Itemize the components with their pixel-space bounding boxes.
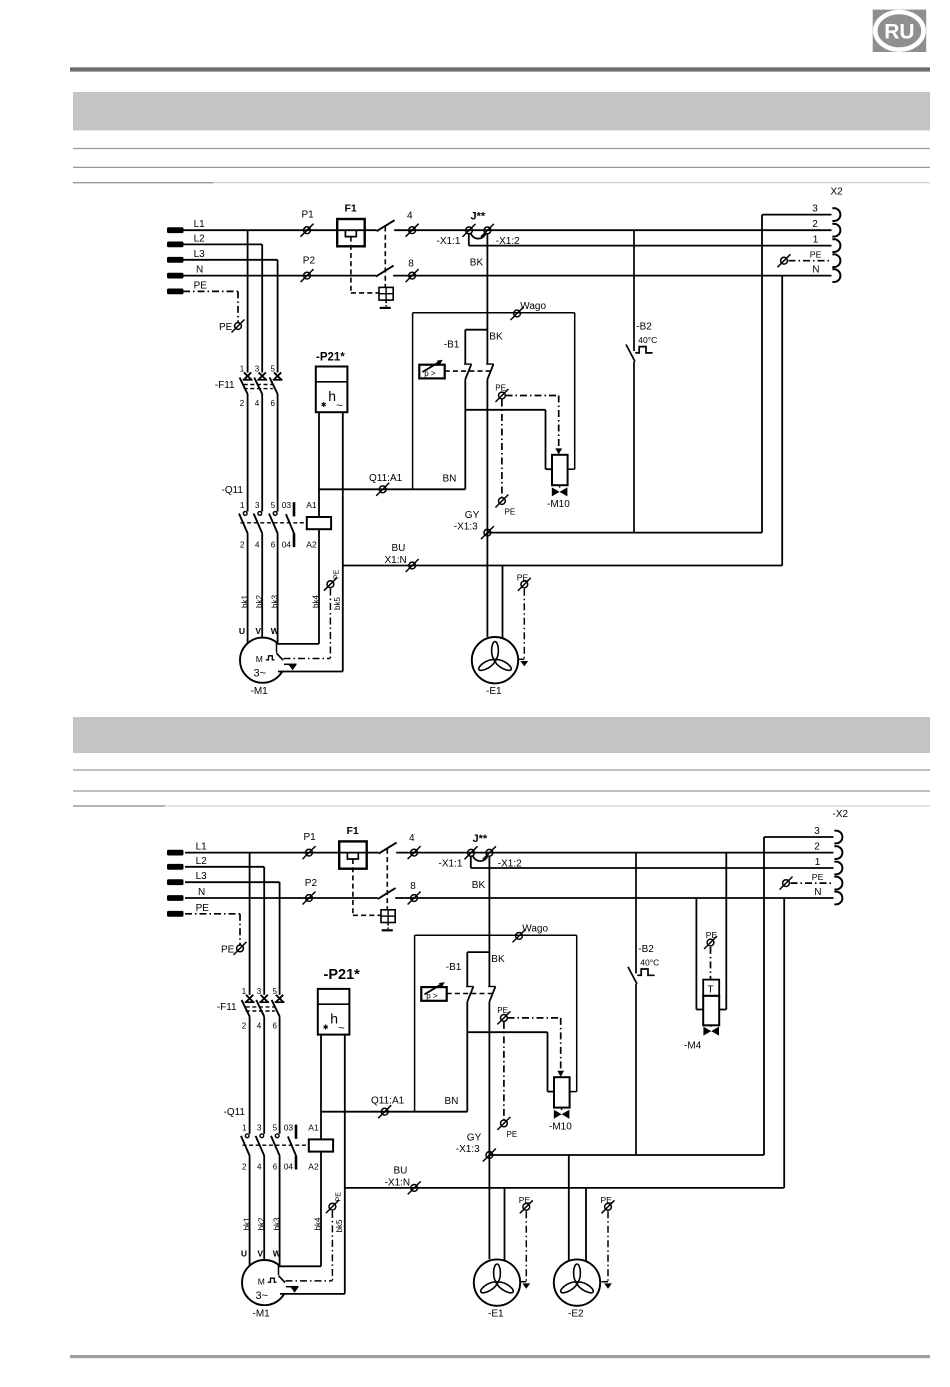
svg-text:L3: L3 [196, 871, 208, 882]
svg-text:-Q11: -Q11 [224, 1107, 246, 1118]
svg-text:-F11: -F11 [215, 380, 235, 391]
svg-text:-M10: -M10 [547, 499, 570, 510]
svg-text:U: U [239, 626, 245, 636]
svg-text:J**: J** [473, 833, 488, 845]
svg-text:PE: PE [601, 1195, 613, 1205]
svg-text:5: 5 [273, 987, 278, 996]
svg-text:bk2: bk2 [257, 1217, 266, 1230]
svg-text:bk5: bk5 [335, 1219, 344, 1232]
svg-text:bk3: bk3 [270, 595, 279, 608]
svg-text:BK: BK [470, 258, 484, 269]
svg-text:1: 1 [813, 235, 819, 246]
svg-text:PE: PE [221, 944, 235, 955]
svg-text:A1: A1 [306, 500, 317, 510]
svg-text:V: V [257, 1249, 263, 1259]
svg-text:1: 1 [815, 857, 821, 868]
svg-text:2: 2 [242, 1021, 247, 1030]
svg-text:03: 03 [282, 500, 292, 510]
svg-text:GY: GY [467, 1132, 482, 1143]
svg-text:04: 04 [284, 1162, 294, 1172]
svg-text:Q11:A1: Q11:A1 [369, 473, 403, 484]
svg-text:T: T [708, 985, 714, 996]
svg-text:L2: L2 [196, 856, 208, 867]
svg-text:-M1: -M1 [251, 686, 269, 697]
svg-text:4: 4 [255, 399, 260, 408]
svg-text:bk1: bk1 [240, 595, 249, 608]
svg-text:-B2: -B2 [636, 322, 652, 333]
svg-text:PE: PE [517, 573, 529, 583]
svg-text:bk3: bk3 [272, 1217, 281, 1230]
svg-text:A2: A2 [308, 1162, 319, 1172]
svg-text:P2: P2 [303, 256, 316, 267]
svg-text:2: 2 [242, 1163, 247, 1172]
svg-text:4: 4 [257, 1021, 262, 1030]
svg-text:-M4: -M4 [684, 1040, 702, 1051]
svg-text:-F11: -F11 [217, 1002, 237, 1013]
svg-text:6: 6 [271, 540, 276, 549]
svg-text:40°C: 40°C [638, 335, 657, 345]
svg-text:PE: PE [810, 250, 822, 260]
svg-text:✱: ✱ [321, 401, 327, 409]
svg-text:2: 2 [240, 399, 245, 408]
svg-text:1: 1 [240, 501, 245, 510]
svg-text:6: 6 [273, 1021, 278, 1030]
svg-text:X1:N: X1:N [385, 555, 407, 566]
svg-text:-M10: -M10 [549, 1121, 572, 1132]
svg-text:4: 4 [409, 833, 415, 844]
svg-text:PE: PE [333, 569, 340, 579]
svg-text:L1: L1 [196, 842, 208, 853]
svg-text:8: 8 [408, 259, 414, 270]
svg-text:3~: 3~ [256, 1290, 269, 1302]
svg-text:5: 5 [271, 501, 276, 510]
svg-text:V: V [255, 626, 261, 636]
svg-text:N: N [198, 887, 205, 898]
svg-text:~: ~ [336, 400, 342, 412]
svg-text:-X1:2: -X1:2 [498, 858, 522, 869]
svg-text:1: 1 [242, 987, 247, 996]
svg-text:N: N [812, 265, 819, 276]
svg-text:PE: PE [706, 930, 718, 940]
svg-text:PE: PE [219, 322, 233, 333]
svg-text:5: 5 [271, 365, 276, 374]
svg-text:X2: X2 [831, 187, 844, 198]
svg-text:P1: P1 [302, 210, 315, 221]
svg-text:4: 4 [407, 211, 413, 222]
svg-text:PE: PE [505, 508, 516, 517]
svg-text:40°C: 40°C [640, 957, 659, 967]
svg-text:-B2: -B2 [638, 944, 654, 955]
svg-text:bk5: bk5 [333, 597, 342, 610]
svg-text:h: h [330, 1010, 338, 1026]
svg-text:PE: PE [497, 1006, 508, 1015]
svg-text:PE: PE [519, 1195, 531, 1205]
svg-text:L1: L1 [194, 219, 206, 230]
svg-text:6: 6 [273, 1163, 278, 1172]
svg-text:F1: F1 [345, 203, 357, 215]
svg-text:3: 3 [257, 1123, 262, 1132]
svg-text:BN: BN [443, 474, 457, 485]
svg-text:3: 3 [255, 365, 260, 374]
svg-text:1: 1 [242, 1123, 247, 1132]
svg-text:3: 3 [255, 501, 260, 510]
svg-text:bk4: bk4 [313, 1217, 322, 1230]
svg-text:L2: L2 [194, 233, 206, 244]
svg-text:-X1:2: -X1:2 [496, 236, 520, 247]
svg-text:PE: PE [335, 1192, 342, 1202]
svg-text:-E1: -E1 [486, 686, 502, 697]
svg-text:-Q11: -Q11 [222, 485, 244, 496]
svg-text:-P21*: -P21* [324, 967, 361, 983]
svg-text:PE: PE [194, 280, 208, 291]
svg-text:M: M [258, 1276, 265, 1286]
svg-text:W: W [271, 626, 280, 636]
svg-text:BK: BK [489, 332, 503, 343]
svg-text:-X1:3: -X1:3 [456, 1144, 480, 1155]
svg-text:-X1:1: -X1:1 [437, 236, 461, 247]
svg-text:2: 2 [240, 540, 245, 549]
svg-text:6: 6 [271, 399, 276, 408]
svg-text:Wago: Wago [522, 923, 548, 934]
svg-text:PE: PE [507, 1130, 518, 1139]
svg-text:Wago: Wago [520, 301, 546, 312]
svg-text:F1: F1 [347, 825, 359, 837]
svg-text:3: 3 [812, 204, 818, 215]
svg-text:BK: BK [472, 880, 486, 891]
svg-text:M: M [256, 654, 263, 664]
svg-text:-E1: -E1 [488, 1308, 504, 1319]
svg-text:3: 3 [257, 987, 262, 996]
svg-text:-M1: -M1 [253, 1308, 271, 1319]
svg-text:BK: BK [491, 954, 505, 965]
svg-text:✱: ✱ [323, 1023, 329, 1031]
svg-text:-B1: -B1 [446, 962, 462, 973]
svg-text:PE: PE [812, 872, 824, 882]
svg-text:BN: BN [445, 1096, 459, 1107]
svg-text:4: 4 [257, 1163, 262, 1172]
svg-text:RU: RU [884, 21, 914, 44]
svg-text:2: 2 [814, 842, 820, 853]
svg-text:-X1:3: -X1:3 [454, 522, 478, 533]
svg-text:U: U [241, 1249, 247, 1259]
svg-text:A2: A2 [306, 539, 317, 549]
svg-text:J**: J** [471, 211, 486, 223]
svg-text:bk2: bk2 [255, 595, 264, 608]
svg-text:3: 3 [814, 826, 820, 837]
svg-text:W: W [273, 1249, 282, 1259]
svg-text:5: 5 [273, 1123, 278, 1132]
svg-text:A1: A1 [308, 1122, 319, 1132]
svg-text:1: 1 [240, 365, 245, 374]
svg-text:-B1: -B1 [444, 340, 460, 351]
svg-text:bk1: bk1 [242, 1217, 251, 1230]
svg-text:-X2: -X2 [833, 809, 849, 820]
svg-text:4: 4 [255, 540, 260, 549]
svg-text:~: ~ [338, 1022, 344, 1034]
svg-text:N: N [196, 265, 203, 276]
svg-text:-X1:N: -X1:N [385, 1177, 411, 1188]
svg-text:PE: PE [495, 384, 506, 393]
svg-text:GY: GY [465, 510, 480, 521]
svg-text:-E2: -E2 [568, 1308, 584, 1319]
svg-text:Q11:A1: Q11:A1 [371, 1095, 405, 1106]
svg-text:BU: BU [394, 1165, 408, 1176]
svg-text:04: 04 [282, 539, 292, 549]
svg-text:2: 2 [812, 219, 818, 230]
svg-text:P2: P2 [305, 878, 318, 889]
svg-text:BU: BU [392, 543, 406, 554]
svg-text:P1: P1 [304, 832, 317, 843]
svg-text:8: 8 [410, 881, 416, 892]
svg-text:03: 03 [284, 1122, 294, 1132]
svg-text:PE: PE [196, 903, 210, 914]
svg-text:h: h [328, 388, 336, 404]
svg-text:N: N [814, 887, 821, 898]
svg-text:L3: L3 [194, 249, 206, 260]
svg-text:bk4: bk4 [311, 595, 320, 608]
svg-text:3~: 3~ [254, 668, 267, 680]
svg-text:-X1:1: -X1:1 [439, 858, 463, 869]
svg-text:-P21*: -P21* [316, 352, 345, 364]
